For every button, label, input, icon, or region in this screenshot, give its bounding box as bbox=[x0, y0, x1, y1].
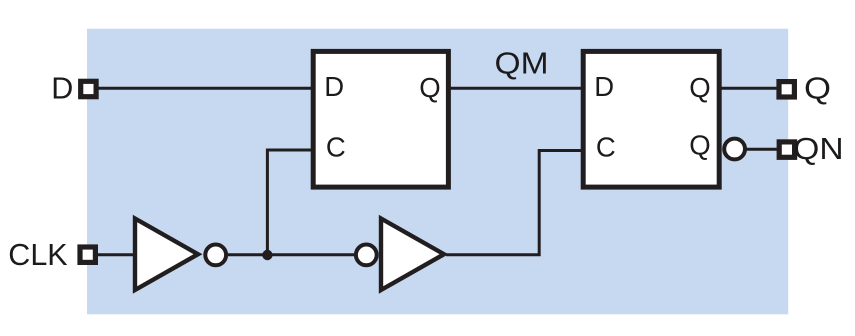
svg-text:D: D bbox=[51, 71, 73, 105]
svg-text:Q: Q bbox=[419, 72, 440, 103]
svg-text:C: C bbox=[596, 132, 616, 163]
svg-text:CLK: CLK bbox=[8, 238, 67, 272]
svg-text:C: C bbox=[326, 132, 346, 163]
svg-text:Q: Q bbox=[804, 72, 831, 106]
svg-text:D: D bbox=[594, 71, 614, 102]
svg-text:D: D bbox=[324, 71, 344, 102]
svg-text:QN: QN bbox=[793, 132, 843, 166]
svg-text:Q: Q bbox=[689, 72, 710, 103]
svg-text:Q: Q bbox=[689, 130, 710, 161]
svg-text:QM: QM bbox=[495, 47, 549, 81]
